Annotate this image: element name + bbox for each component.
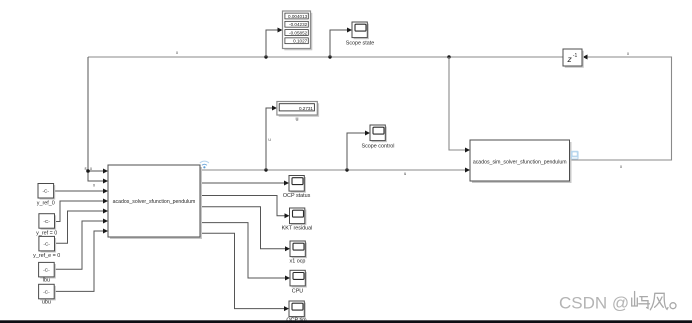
svg-text:-C-: -C-: [43, 268, 50, 274]
scope: OCP time: [286, 301, 307, 323]
node: viewer badge on sim solver output: [571, 151, 579, 160]
svg-text:-C-: -C-: [42, 189, 49, 195]
svg-text:0.2731: 0.2731: [299, 106, 313, 111]
wire: x from unit delay output across the top: [88, 56, 563, 58]
wire: solver output 5 to CPU: [200, 223, 290, 281]
node: junction at (330,57): [328, 55, 331, 58]
node: junction at (347,170): [345, 168, 348, 171]
svg-text:u: u: [296, 117, 299, 123]
wire: lbu constant to solver input 6: [54, 219, 108, 270]
svg-text:y_ref_0: y_ref_0: [37, 200, 55, 206]
svg-text:u: u: [268, 137, 271, 142]
op-amp: acados_solver_sfunction_pendulum block: [108, 165, 202, 239]
svg-text:-0.04232: -0.04232: [289, 22, 308, 27]
svg-text:y_ref = 0: y_ref = 0: [36, 231, 57, 237]
capacitor: constant y_ref_e = 0: [33, 236, 60, 259]
svg-text:x: x: [93, 183, 96, 188]
transistor: unit delay z^-1 block: [563, 49, 584, 68]
svg-text:CSDN @: CSDN @: [559, 294, 629, 313]
svg-text:OCP status: OCP status: [283, 193, 311, 199]
wire: branch up to state Display: [266, 28, 283, 58]
node: bottom dark bar: [0, 320, 692, 323]
svg-text:0.004013: 0.004013: [288, 14, 308, 19]
capacitor: constant ubu: [39, 284, 56, 305]
capacitor: constant lbu: [39, 262, 56, 283]
wire: solver output 2 to OCP status: [200, 181, 289, 186]
svg-text:-C-: -C-: [43, 290, 50, 296]
wire: ubu constant to solver input 7: [54, 229, 108, 292]
node: junction at (266,170): [264, 168, 267, 171]
svg-text:x1 ocp: x1 ocp: [290, 258, 306, 264]
svg-text:z: z: [567, 54, 573, 64]
wire: left vertical down to solver inputs: [88, 57, 108, 184]
svg-text:x: x: [627, 51, 630, 56]
scope: x1 ocp: [290, 241, 307, 264]
node: wifi logging badge on solver block: [200, 161, 209, 168]
svg-text:0.1027: 0.1027: [293, 39, 307, 44]
capacitor: Display u (0.2731): [277, 102, 319, 123]
svg-text:x: x: [176, 50, 179, 55]
wire: u from solver output 1 to sim solver input 2: [200, 168, 470, 173]
svg-text:-0.05852: -0.05852: [289, 30, 308, 35]
capacitor: constant y_ref = 0: [36, 214, 57, 237]
wire: solver output 4 to x1 ocp: [200, 207, 290, 252]
wire: arrowhead into unit delay (points left): [583, 55, 588, 60]
svg-text:Scope state: Scope state: [346, 41, 374, 47]
svg-text:Scope control: Scope control: [362, 144, 395, 150]
svg-text:-C-: -C-: [43, 242, 50, 248]
node: junction at (449,57): [447, 55, 450, 58]
scope: CPU: [290, 270, 307, 294]
svg-text:KKT residual: KKT residual: [282, 225, 313, 231]
svg-text:x: x: [90, 166, 93, 171]
capacitor: constant y_ref_0: [37, 184, 55, 207]
wire: branch up to u Display: [266, 106, 277, 171]
svg-text:acados_solver_sfunction_pendul: acados_solver_sfunction_pendulum: [113, 199, 196, 205]
wire: y_ref_0 constant to solver input 3: [54, 189, 108, 194]
node: junction at (266,57): [264, 55, 267, 58]
wire: solver output 3 to KKT residual: [200, 196, 290, 219]
svg-text:y_ref_e = 0: y_ref_e = 0: [33, 253, 60, 259]
wire: branch down to sim solver input 1: [449, 57, 470, 153]
wire: branch up to Scope control: [347, 131, 370, 171]
wire: y_ref constant to solver input 4: [54, 199, 108, 222]
node: junction at (88,171): [86, 169, 90, 173]
wire: x feedback from sim output to corner, bottom segment: [570, 57, 672, 160]
svg-text:-1: -1: [573, 53, 578, 59]
scope: KKT residual: [282, 208, 313, 231]
wire: y_ref_e constant to solver input 5: [54, 209, 108, 244]
svg-text:lbu: lbu: [43, 278, 50, 284]
svg-text:CPU: CPU: [292, 289, 303, 295]
svg-text:x: x: [620, 164, 623, 169]
node: CSDN watermark: [559, 292, 676, 313]
wire: branch up to Scope state: [330, 28, 352, 58]
svg-text:ubu: ubu: [42, 300, 51, 306]
scope: OCP status: [283, 176, 311, 199]
op-amp: acados_sim_solver_sfunction_pendulum block: [470, 140, 572, 183]
svg-text:acados_sim_solver_sfunction_pe: acados_sim_solver_sfunction_pendulum: [473, 160, 567, 166]
svg-text:u: u: [404, 171, 407, 176]
scope: Scope state: [346, 22, 374, 47]
scope: Scope control: [362, 125, 395, 150]
wire: solver output 6 to OCP time: [200, 233, 289, 311]
capacitor: Display block with state values: [283, 11, 313, 50]
svg-text:-C-: -C-: [43, 219, 50, 225]
svg-text:s: s: [84, 166, 86, 171]
